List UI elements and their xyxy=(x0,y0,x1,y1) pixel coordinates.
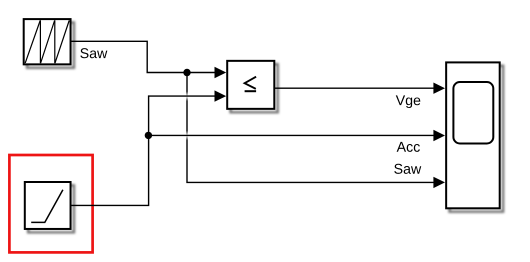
wire crossing fade on vertical branch at y=96.3 xyxy=(186,92,189,102)
wire Saw source to relational operator input 1 xyxy=(72,41,216,72)
arrowhead scope input 1 xyxy=(433,83,445,94)
relational operator block (less-or-equal) xyxy=(227,61,278,112)
wire relational output to scope input 1 xyxy=(274,87,434,89)
signal label Saw xyxy=(394,164,421,174)
scope block xyxy=(446,62,503,211)
wire crossing fade on vertical branch at y=135.5 xyxy=(186,131,189,141)
label Saw (source block name) xyxy=(80,48,107,58)
signal generator block Saw xyxy=(24,19,74,68)
signal label Acc xyxy=(397,142,420,152)
junction dot node Saw xyxy=(183,69,190,76)
arrowhead scope input 2 xyxy=(433,130,445,141)
wire saturation output to relational operator input 2 xyxy=(72,96,216,205)
arrowhead scope input 3 xyxy=(433,177,445,188)
signal label Vge xyxy=(396,95,421,108)
highlight red box around saturation block xyxy=(9,155,92,252)
arrowhead relational input 2 xyxy=(215,90,227,101)
junction dot node Acc xyxy=(145,132,152,139)
wire branch Acc to scope input 2 xyxy=(148,134,434,136)
wire branch Saw to scope input 3 xyxy=(187,73,434,183)
saturation block xyxy=(25,182,74,232)
arrowhead relational input 1 xyxy=(215,67,227,78)
